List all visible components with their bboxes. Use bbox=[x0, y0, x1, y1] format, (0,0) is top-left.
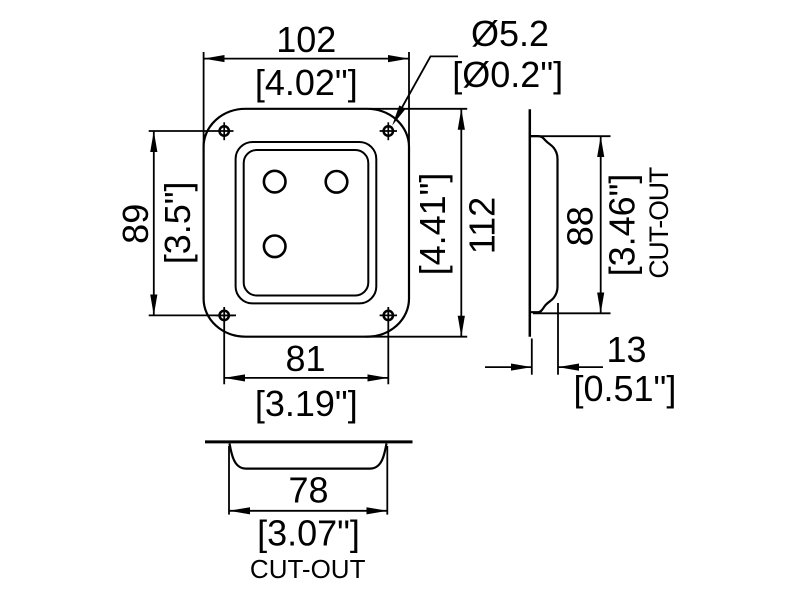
side view plate edge bbox=[529, 109, 532, 337]
svg-text:[4.02"]: [4.02"] bbox=[255, 62, 358, 103]
screw hole top-left bbox=[220, 126, 393, 320]
dim 89 line bbox=[153, 131, 155, 315]
svg-text:[3.5"]: [3.5"] bbox=[157, 181, 198, 264]
dim 81 line bbox=[224, 377, 388, 379]
svg-text:102: 102 bbox=[276, 19, 336, 60]
svg-text:112: 112 bbox=[461, 197, 502, 254]
svg-text:Ø5.2: Ø5.2 bbox=[471, 13, 549, 54]
svg-text:[4.41"]: [4.41"] bbox=[412, 173, 453, 276]
svg-text:[3.07"]: [3.07"] bbox=[257, 512, 360, 553]
front view plate outline bbox=[204, 109, 409, 337]
hole top-right bbox=[326, 171, 348, 193]
dim 112 extension lines bbox=[365, 109, 467, 337]
svg-text:CUT-OUT: CUT-OUT bbox=[644, 167, 674, 279]
hole bottom-left bbox=[264, 236, 286, 258]
bottom view bowl profile bbox=[230, 444, 387, 469]
svg-text:81: 81 bbox=[285, 338, 325, 379]
svg-text:13: 13 bbox=[606, 329, 646, 370]
dim 88 line bbox=[600, 136, 602, 313]
dim 78 line bbox=[229, 510, 387, 512]
dim 13 extension lines bbox=[532, 303, 558, 375]
dim 102 extension lines bbox=[204, 52, 409, 148]
dim 88 extension lines bbox=[531, 136, 611, 313]
leader for hole callout bbox=[398, 56, 459, 115]
dim 102 line bbox=[204, 58, 409, 60]
dim 112 line bbox=[460, 109, 462, 337]
side view bowl profile bbox=[531, 136, 558, 312]
dim 89 extension lines bbox=[149, 131, 234, 315]
dim 78 extension lines bbox=[229, 446, 387, 515]
svg-text:89: 89 bbox=[115, 204, 156, 244]
svg-text:88: 88 bbox=[559, 206, 600, 246]
svg-text:[Ø0.2"]: [Ø0.2"] bbox=[452, 54, 563, 95]
hole top-left bbox=[264, 171, 286, 193]
dim 81 extension lines bbox=[224, 307, 388, 384]
bottom view plate edge bbox=[205, 440, 413, 443]
dim 13 arrows bbox=[485, 366, 532, 368]
recess outer line bbox=[236, 142, 377, 303]
svg-text:78: 78 bbox=[288, 470, 328, 511]
screw hole crosshairs bbox=[216, 122, 398, 315]
svg-text:CUT-OUT: CUT-OUT bbox=[250, 554, 366, 584]
recess inner line bbox=[244, 150, 369, 296]
svg-text:[3.19"]: [3.19"] bbox=[255, 383, 358, 424]
svg-text:[3.46"]: [3.46"] bbox=[601, 174, 642, 277]
svg-text:[0.51"]: [0.51"] bbox=[573, 368, 676, 409]
